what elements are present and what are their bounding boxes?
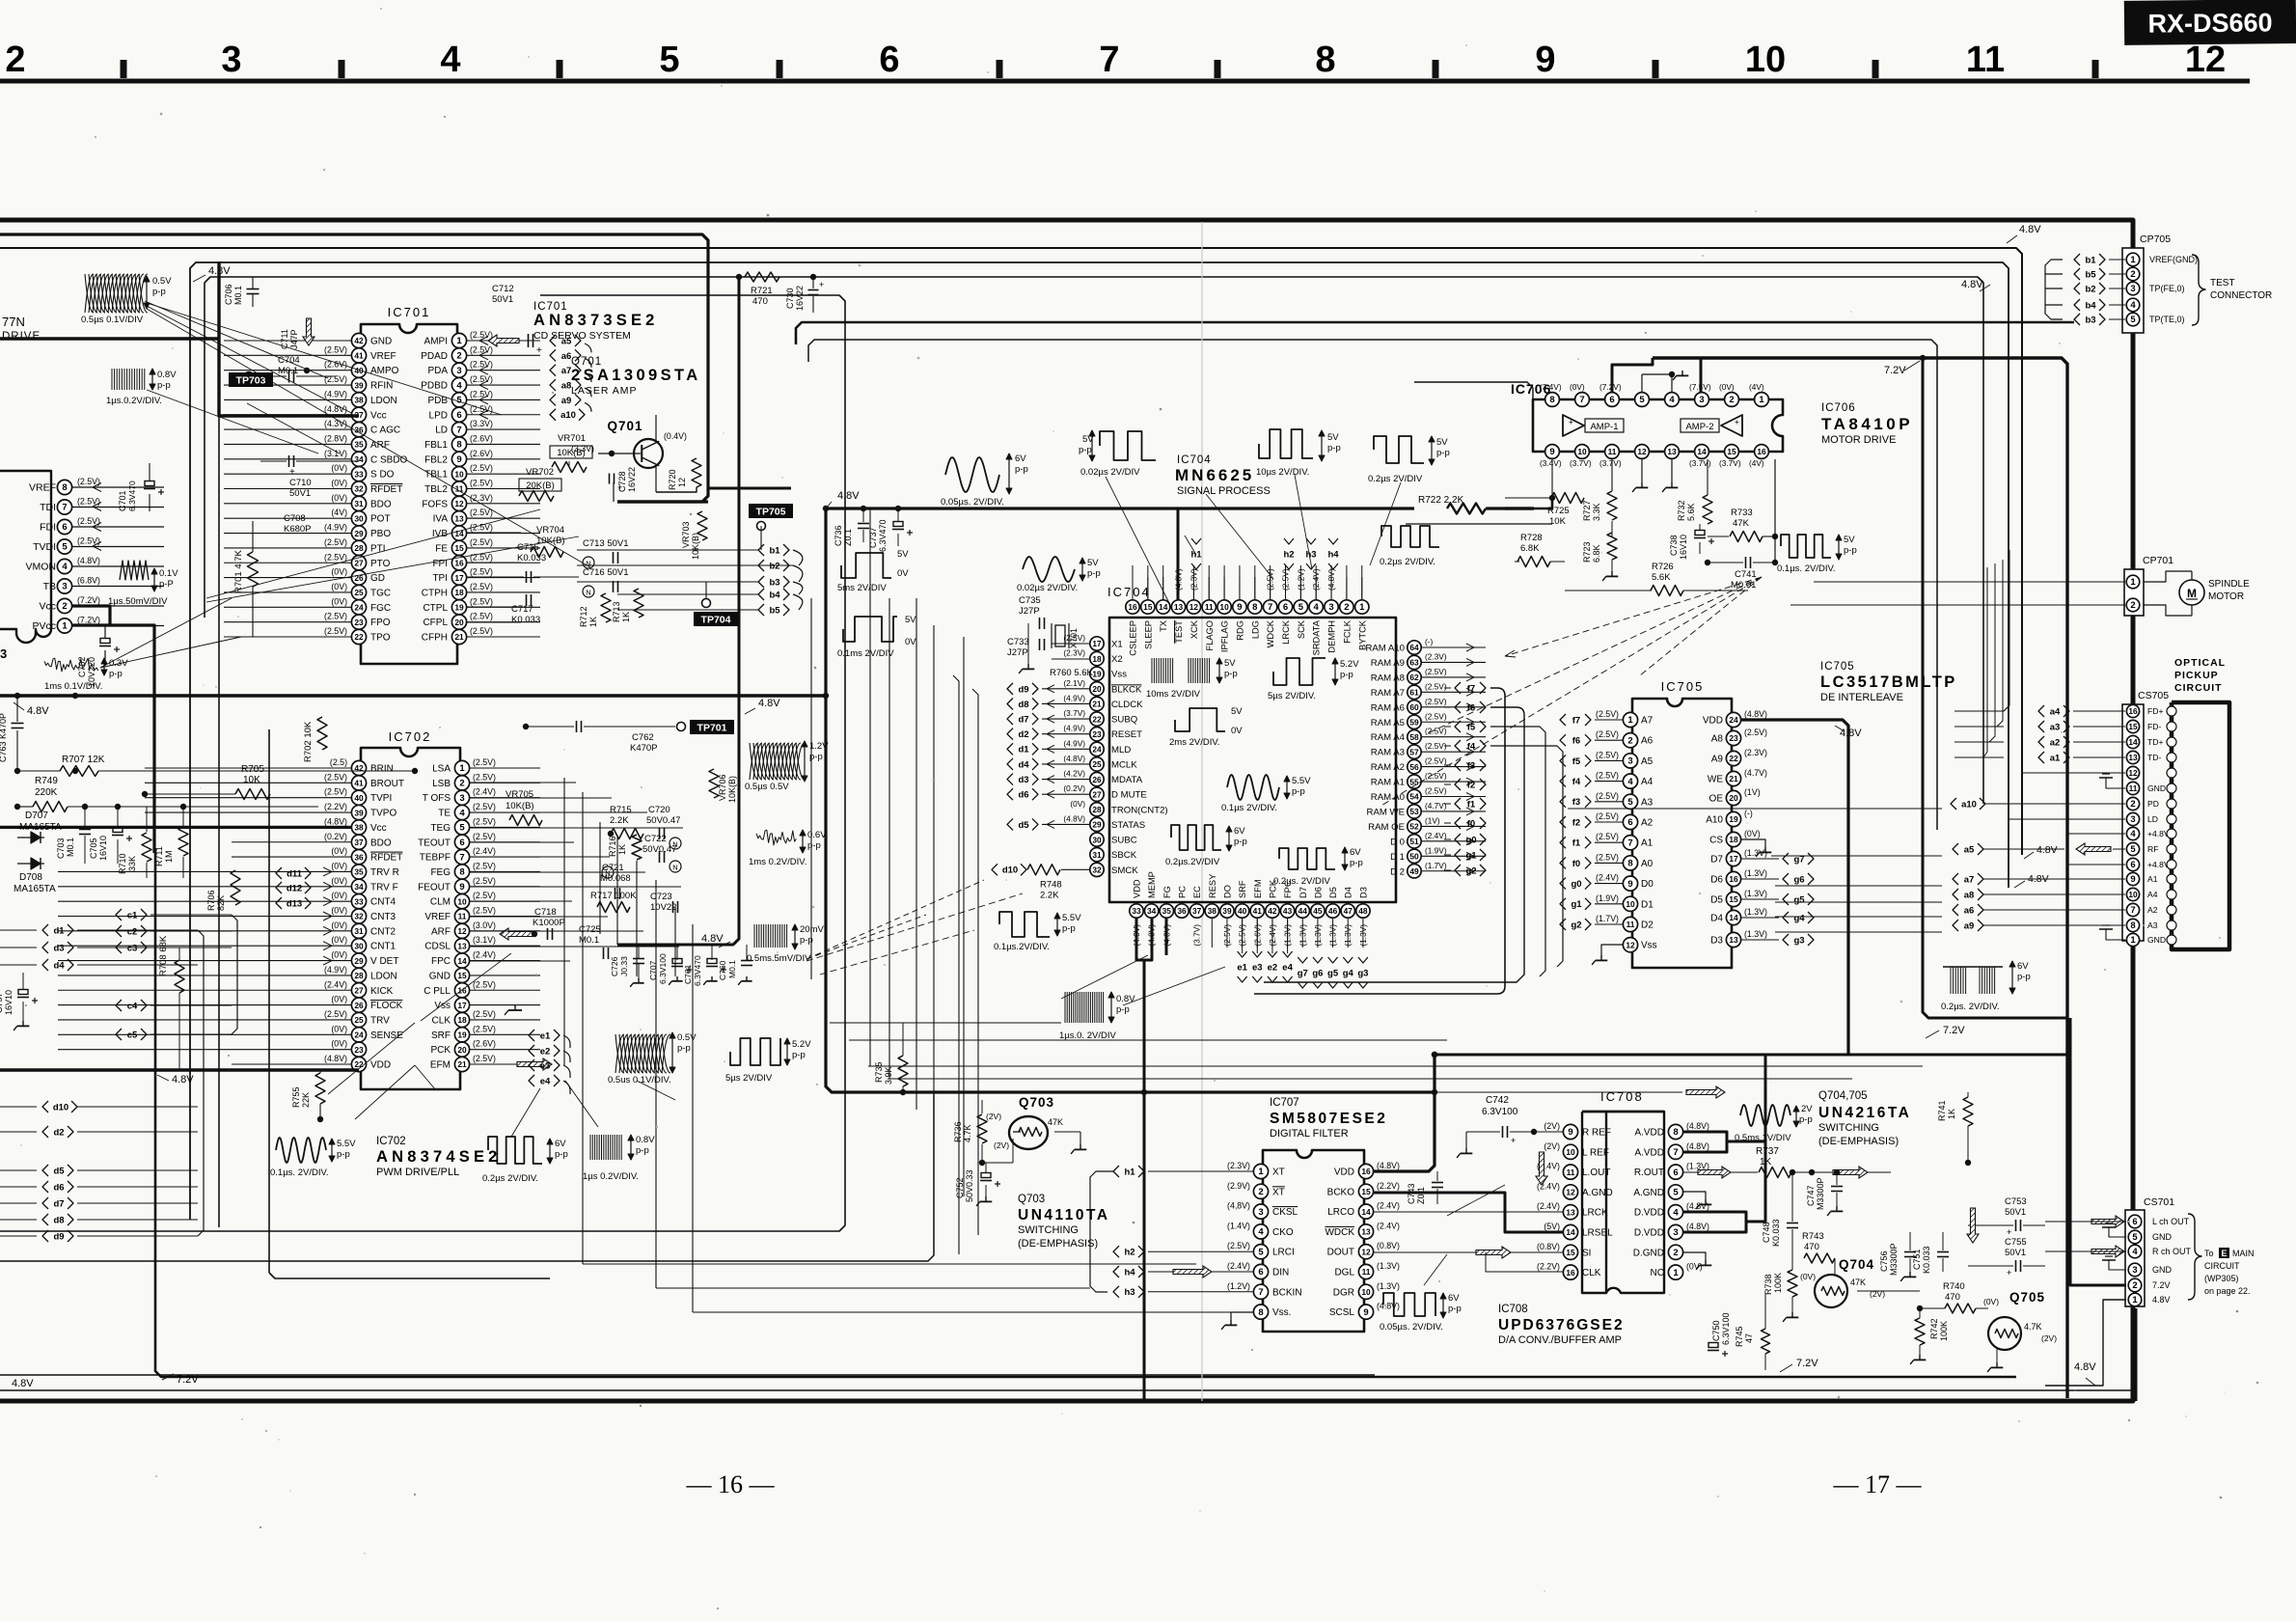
svg-text:p-p: p-p <box>1844 545 1857 556</box>
waveform square 2ms <box>1175 708 1225 731</box>
svg-text:BROUT: BROUT <box>370 779 404 789</box>
svg-text:(4.8V): (4.8V) <box>324 816 347 826</box>
svg-text:IPFLAG: IPFLAG <box>1220 620 1230 652</box>
svg-text:R708 68K: R708 68K <box>158 935 169 976</box>
waveform square 0.1ms <box>843 617 897 642</box>
svg-text:0.8V: 0.8V <box>636 1135 655 1145</box>
svg-text:0.1µs.2V/DIV.: 0.1µs.2V/DIV. <box>994 942 1050 952</box>
svg-text:5V: 5V <box>1224 658 1236 669</box>
wire h bundle <box>1090 1171 1113 1292</box>
pin 10 D1 of IC705 <box>1623 896 1637 911</box>
svg-text:38: 38 <box>354 396 364 405</box>
svg-text:c5: c5 <box>127 1030 138 1040</box>
svg-text:A6: A6 <box>1641 736 1654 747</box>
wire a4-a1 bundle up <box>2004 550 2009 711</box>
svg-text:7: 7 <box>456 425 461 435</box>
svg-text:38: 38 <box>354 823 364 833</box>
svg-text:29: 29 <box>1092 820 1102 830</box>
svg-text:52: 52 <box>1409 822 1419 832</box>
svg-text:(2.3V): (2.3V) <box>1227 1161 1250 1170</box>
pin 25 TRV of IC702 <box>351 1012 366 1027</box>
svg-text:8: 8 <box>1258 1307 1263 1318</box>
svg-text:1: 1 <box>62 621 68 632</box>
svg-text:VDD: VDD <box>370 1060 391 1071</box>
svg-text:(2.5V): (2.5V) <box>470 479 493 488</box>
svg-text:(2V): (2V) <box>986 1112 1001 1121</box>
pin 12 FOFS of IC701 <box>451 496 466 510</box>
pin 12 A.GND of IC708 <box>1563 1185 1577 1199</box>
svg-text:2: 2 <box>2130 269 2135 280</box>
svg-text:IC704: IC704 <box>1107 585 1151 599</box>
svg-text:SWITCHING: SWITCHING <box>1818 1122 1879 1134</box>
svg-text:39: 39 <box>1222 906 1232 916</box>
svg-text:(2.5V): (2.5V) <box>473 861 496 870</box>
svg-text:13: 13 <box>1566 1207 1575 1217</box>
pin 3 LD of CS705 <box>2126 812 2139 825</box>
svg-text:AMPI: AMPI <box>424 337 448 347</box>
svg-text:2: 2 <box>1344 602 1349 613</box>
svg-text:16V10: 16V10 <box>1679 535 1688 560</box>
wire X1 X2 stubs <box>1052 643 1089 645</box>
svg-text:VR702: VR702 <box>526 467 554 478</box>
pin 2 LSB of IC702 <box>454 776 469 790</box>
pin 16 FPI of IC701 <box>451 556 466 570</box>
svg-text:5.5V: 5.5V <box>1292 776 1311 786</box>
svg-text:b1: b1 <box>769 545 780 556</box>
svg-text:8: 8 <box>1627 859 1632 869</box>
pin 41 VREF of IC701 <box>351 348 366 363</box>
svg-text:TD+: TD+ <box>2147 737 2163 747</box>
svg-text:19: 19 <box>454 603 464 613</box>
svg-text:a9: a9 <box>561 396 572 406</box>
svg-text:0.2µs 2V/DIV.: 0.2µs 2V/DIV. <box>1380 557 1435 567</box>
svg-text:0.1µs. 2V/DIV.: 0.1µs. 2V/DIV. <box>1777 563 1836 574</box>
svg-text:(2.5V): (2.5V) <box>1596 811 1619 821</box>
waveform square 5ms <box>841 553 891 578</box>
svg-text:GND: GND <box>370 337 392 347</box>
pin 37 BDO of IC702 <box>351 835 366 849</box>
svg-text:33: 33 <box>354 469 364 479</box>
op-amp AMP-2 <box>1721 415 1742 436</box>
node c4 chevron <box>116 1000 122 1011</box>
svg-text:(0V): (0V) <box>331 596 347 606</box>
svg-text:CS705: CS705 <box>2138 690 2169 701</box>
svg-text:LD: LD <box>2147 814 2158 824</box>
svg-text:3: 3 <box>62 582 67 592</box>
svg-text:23: 23 <box>354 618 364 627</box>
svg-text:45: 45 <box>1313 906 1323 916</box>
svg-text:p-p: p-p <box>1799 1114 1813 1125</box>
svg-text:h2: h2 <box>1124 1248 1134 1258</box>
svg-text:1: 1 <box>1759 395 1764 405</box>
svg-text:(2.4V): (2.4V) <box>1537 1201 1560 1211</box>
svg-text:(2.3V): (2.3V) <box>1744 748 1767 757</box>
svg-text:15: 15 <box>2128 722 2138 731</box>
svg-text:17: 17 <box>454 573 464 583</box>
svg-text:C708: C708 <box>284 513 306 524</box>
pin 36 RFDET of IC702 <box>351 850 366 865</box>
svg-text:(7.2V): (7.2V) <box>77 616 100 625</box>
svg-text:(0V): (0V) <box>331 876 347 886</box>
op-amp AMP-1 <box>1563 415 1584 436</box>
svg-text:9: 9 <box>1549 447 1554 457</box>
svg-text:D7: D7 <box>1298 887 1308 898</box>
svg-text:34: 34 <box>354 882 364 892</box>
svg-text:(2.5): (2.5) <box>330 757 347 767</box>
svg-text:(4.9V): (4.9V) <box>1063 693 1085 702</box>
svg-text:SUBC: SUBC <box>1111 836 1137 846</box>
svg-text:36: 36 <box>354 852 364 862</box>
pin 16 FD+ of CS705 <box>2126 704 2139 717</box>
svg-text:50V0.47: 50V0.47 <box>646 815 680 826</box>
svg-text:(2.5V): (2.5V) <box>470 463 493 473</box>
svg-text:0.8V: 0.8V <box>1116 994 1135 1004</box>
svg-text:C735: C735 <box>1019 595 1041 606</box>
pin 14 FPC of IC702 <box>454 953 469 968</box>
svg-text:(1.3V): (1.3V) <box>1744 907 1767 917</box>
pin 4 PDBD of IC701 <box>451 377 466 392</box>
wire horizontal bundle below IC704 <box>826 508 1435 1092</box>
svg-text:47K: 47K <box>1048 1117 1063 1127</box>
pin 21 CFPH of IC701 <box>451 629 466 644</box>
svg-text:d5: d5 <box>53 1166 65 1176</box>
pin 41 BROUT of IC702 <box>351 776 366 790</box>
svg-text:p-p: p-p <box>636 1145 649 1156</box>
node a5 <box>550 335 556 346</box>
pin 53 RAM WE of IC704 right <box>1408 805 1421 818</box>
svg-text:+: + <box>1511 1136 1516 1145</box>
svg-text:PDAD: PDAD <box>421 351 448 362</box>
svg-text:4: 4 <box>2130 829 2136 839</box>
wire top rail 4 (R721 rail) <box>205 277 1983 804</box>
svg-text:VR701: VR701 <box>558 433 586 444</box>
svg-text:25: 25 <box>354 1015 364 1025</box>
svg-text:g0: g0 <box>1465 835 1476 845</box>
svg-text:IC702: IC702 <box>376 1136 406 1147</box>
svg-text:TD-: TD- <box>2147 753 2161 762</box>
svg-text:(1.3V): (1.3V) <box>1377 1281 1400 1291</box>
svg-text:Vcc: Vcc <box>39 601 56 613</box>
svg-text:R712: R712 <box>579 606 588 627</box>
node d9 d8 d7 d2 d1 d4 d3 d6 chevrons to IC704 <box>1007 683 1013 695</box>
node d10 d2 chevrons <box>42 1101 48 1113</box>
svg-text:R706: R706 <box>206 890 216 911</box>
svg-text:PDA: PDA <box>427 366 448 376</box>
svg-text:34: 34 <box>1147 906 1157 916</box>
svg-text:38: 38 <box>1208 906 1217 916</box>
page fold line <box>1201 222 1203 1401</box>
svg-text:(4.8V): (4.8V) <box>1686 1222 1709 1231</box>
svg-text:15: 15 <box>457 971 467 980</box>
pin 4 of IC706 top <box>1665 393 1680 407</box>
svg-text:R738: R738 <box>1763 1274 1773 1295</box>
svg-text:20: 20 <box>1729 793 1738 803</box>
wire thick 7.2V mid <box>1923 358 2067 1018</box>
pin 30 CNT1 of IC702 <box>351 939 366 953</box>
pin 23 nc of IC702 <box>351 1042 366 1057</box>
svg-text:6: 6 <box>2130 860 2135 870</box>
svg-text:CKO: CKO <box>1272 1227 1294 1238</box>
svg-text:WDCK: WDCK <box>1325 1227 1354 1238</box>
svg-text:4.8V: 4.8V <box>2019 224 2041 235</box>
pin 17 TPI of IC701 <box>451 570 466 585</box>
svg-text:2ms 2V/DIV.: 2ms 2V/DIV. <box>1169 737 1219 748</box>
svg-text:C741: C741 <box>1735 569 1757 580</box>
waveform saw 0.1V p-p <box>120 561 149 580</box>
svg-text:a6: a6 <box>561 351 572 362</box>
svg-text:(2.4V): (2.4V) <box>324 979 347 989</box>
wire pointer diagonal cluster IC701 <box>147 309 590 567</box>
connector CS701 <box>2125 1210 2145 1306</box>
pin 4 SRDATA of IC704 top <box>1309 600 1323 614</box>
svg-text:R710: R710 <box>118 853 127 874</box>
svg-text:2.2K: 2.2K <box>610 815 629 826</box>
pin 33 S DO of IC701 <box>351 467 366 481</box>
motor driver IC706 body <box>1533 399 1783 452</box>
svg-text:IC708: IC708 <box>1498 1304 1528 1315</box>
wire 4.8V rail to IC706 <box>826 507 1414 509</box>
waveform hatch 0.8V bottom mid <box>589 1135 591 1160</box>
svg-text:R705: R705 <box>241 764 264 775</box>
svg-text:(0V): (0V) <box>1719 382 1735 392</box>
svg-text:8: 8 <box>1549 395 1554 405</box>
svg-text:470: 470 <box>752 296 768 307</box>
pin 5 A3 of IC705 <box>1623 794 1637 809</box>
pin 38 RESY of IC704 bottom <box>1205 904 1218 918</box>
svg-text:+: + <box>536 345 542 356</box>
svg-text:(2.5V): (2.5V) <box>1425 711 1447 721</box>
svg-text:p-p: p-p <box>1292 786 1305 797</box>
svg-text:10: 10 <box>1566 1147 1575 1157</box>
svg-text:C710: C710 <box>289 478 312 488</box>
svg-text:(1.7V): (1.7V) <box>1596 914 1619 923</box>
svg-text:6.8K: 6.8K <box>1592 544 1601 563</box>
wire diagonal dashed to IC704 <box>806 893 1023 961</box>
pin 3 PDA of IC701 <box>451 363 466 377</box>
svg-text:PICKUP: PICKUP <box>2174 670 2219 681</box>
svg-text:14: 14 <box>1159 602 1168 612</box>
svg-text:(1.4V): (1.4V) <box>1227 1221 1250 1230</box>
svg-text:10µs 2V/DIV.: 10µs 2V/DIV. <box>1256 467 1309 478</box>
svg-text:Z0.1: Z0.1 <box>1416 1187 1426 1204</box>
svg-text:29: 29 <box>354 956 364 966</box>
connector CP705 test connector <box>2122 248 2144 333</box>
svg-text:RAM A5: RAM A5 <box>1371 718 1405 728</box>
svg-text:(0V): (0V) <box>331 920 347 930</box>
pin 2 of CP701 <box>2126 598 2140 612</box>
svg-text:C720: C720 <box>648 805 670 815</box>
svg-text:26: 26 <box>1092 775 1102 784</box>
svg-text:28: 28 <box>1092 805 1102 814</box>
svg-text:D2: D2 <box>1641 920 1654 931</box>
svg-text:10: 10 <box>1361 1287 1371 1297</box>
svg-text:(4.8V): (4.8V) <box>1377 1302 1400 1311</box>
svg-text:D 0: D 0 <box>1390 837 1405 847</box>
svg-text:g2: g2 <box>1571 920 1581 930</box>
pin 42 PCK of IC704 bottom <box>1266 904 1279 918</box>
svg-text:16V10: 16V10 <box>4 990 14 1015</box>
svg-text:1: 1 <box>2130 935 2136 946</box>
svg-text:a4: a4 <box>2050 706 2061 717</box>
svg-text:7.2V: 7.2V <box>1884 365 1906 376</box>
svg-text:8: 8 <box>1315 40 1335 80</box>
svg-text:RFDET: RFDET <box>370 853 402 864</box>
svg-text:12: 12 <box>457 926 467 936</box>
pin 20 CFPL of IC701 <box>451 615 466 629</box>
svg-text:R732: R732 <box>1677 500 1686 521</box>
svg-text:TEST: TEST <box>2210 278 2235 288</box>
svg-text:f1: f1 <box>1467 799 1476 810</box>
node e and g chevrons below IC704 <box>1242 919 1244 953</box>
node c1 c2 c3 chevrons <box>116 909 122 920</box>
pin 31 SBCK of IC704 left <box>1090 847 1104 861</box>
pin 35 ARF of IC701 <box>351 437 366 452</box>
svg-text:(0V): (0V) <box>331 567 347 577</box>
pin 13 of IC706 bottom <box>1665 445 1680 459</box>
svg-text:14: 14 <box>457 956 467 966</box>
svg-text:FCLK: FCLK <box>1342 619 1352 644</box>
pin 6 +4.8V of CS705 <box>2126 858 2139 870</box>
svg-text:(4.8V): (4.8V) <box>324 1054 347 1063</box>
svg-text:(1.2V): (1.2V) <box>1227 1281 1250 1291</box>
svg-text:FLAGO: FLAGO <box>1205 620 1215 651</box>
svg-text:Vss.: Vss. <box>1272 1307 1291 1318</box>
svg-text:TDI: TDI <box>40 502 56 513</box>
svg-text:7: 7 <box>1258 1287 1263 1298</box>
svg-text:a8: a8 <box>1964 890 1975 900</box>
svg-text:39: 39 <box>354 808 364 817</box>
svg-text:M3300P: M3300P <box>1889 1243 1899 1276</box>
svg-text:f4: f4 <box>1467 741 1476 752</box>
pin 7 TEBPF of IC702 <box>454 850 469 865</box>
pin 31 BDO of IC701 <box>351 496 366 510</box>
svg-text:DE INTERLEAVE: DE INTERLEAVE <box>1820 692 1903 703</box>
svg-text:7: 7 <box>1579 395 1584 405</box>
svg-text:39: 39 <box>354 380 364 390</box>
svg-text:6: 6 <box>1283 602 1288 613</box>
wire thick bottom joining <box>1848 1054 2070 1057</box>
svg-text:VREF: VREF <box>29 482 56 494</box>
svg-text:42: 42 <box>1268 906 1277 916</box>
svg-text:2: 2 <box>2132 1280 2137 1291</box>
svg-text:(1.9V): (1.9V) <box>1425 845 1447 855</box>
svg-text:0.2µs. 2V/DIV.: 0.2µs. 2V/DIV. <box>1941 1002 2000 1012</box>
pin 8 A.VDD of IC708 <box>1668 1124 1682 1139</box>
svg-text:60: 60 <box>1409 702 1419 712</box>
svg-text:C717: C717 <box>511 604 533 615</box>
svg-text:(3.4V): (3.4V) <box>1540 458 1562 468</box>
svg-text:CLK: CLK <box>1582 1268 1601 1278</box>
svg-text:50V1: 50V1 <box>2005 1248 2026 1258</box>
pin 17 X1 of IC704 left <box>1090 637 1104 650</box>
svg-text:A4: A4 <box>1641 777 1654 787</box>
pin 56 RAM A2 of IC704 right <box>1408 759 1421 773</box>
svg-text:h2: h2 <box>1283 550 1294 561</box>
pin 2 7.2V of CS701 <box>2128 1278 2142 1292</box>
pin 32 CNT3 of IC702 <box>351 909 366 923</box>
op-amp IC701 AN8373SE2 body <box>361 324 457 664</box>
pin 4 TE of IC702 <box>454 805 469 819</box>
svg-text:(2.5V): (2.5V) <box>473 891 496 900</box>
svg-text:0.2µs 2V/DIV: 0.2µs 2V/DIV <box>1368 474 1423 484</box>
svg-text:A.VDD: A.VDD <box>1634 1128 1664 1139</box>
svg-text:a8: a8 <box>561 380 572 391</box>
pin 3 T OFS of IC702 <box>454 790 469 805</box>
svg-text:5V: 5V <box>1844 535 1855 545</box>
svg-text:LD: LD <box>435 426 448 436</box>
svg-text:5V: 5V <box>1087 558 1099 568</box>
svg-text:(0V): (0V) <box>1070 799 1085 809</box>
svg-text:PD: PD <box>2147 799 2159 809</box>
wire top thick border rail <box>0 220 2133 1401</box>
svg-text:M0.1: M0.1 <box>233 286 243 305</box>
svg-text:(1.3V): (1.3V) <box>1744 889 1767 898</box>
svg-text:f5: f5 <box>1467 722 1476 732</box>
svg-text:TBL2: TBL2 <box>424 484 448 495</box>
svg-text:a9: a9 <box>1964 920 1975 931</box>
svg-text:RESY: RESY <box>1208 874 1217 898</box>
svg-text:p-p: p-p <box>555 1149 568 1160</box>
svg-text:CP705: CP705 <box>2140 234 2171 245</box>
pin 14 IVB of IC701 <box>451 526 466 540</box>
pin 19 SRF of IC702 <box>454 1028 469 1042</box>
svg-text:(0V): (0V) <box>331 995 347 1004</box>
wire pointer diagonals mid <box>355 1065 415 1119</box>
svg-text:5V: 5V <box>1327 432 1339 443</box>
svg-text:SRDATA: SRDATA <box>1312 619 1322 655</box>
pin 6 LRCK of IC704 top <box>1278 600 1292 614</box>
svg-text:16: 16 <box>1757 447 1766 456</box>
pin 14 of IC706 bottom <box>1695 445 1709 459</box>
svg-text:A8: A8 <box>1711 734 1724 745</box>
svg-text:A4: A4 <box>2147 890 2158 899</box>
svg-text:RAM A3: RAM A3 <box>1371 748 1405 758</box>
svg-text:J0.33: J0.33 <box>619 956 629 976</box>
svg-text:RESET: RESET <box>1111 729 1142 740</box>
pin 24 SENSE of IC702 <box>351 1028 366 1042</box>
svg-text:3: 3 <box>1627 756 1632 767</box>
pin 23 A8 of IC705 <box>1726 730 1740 745</box>
svg-text:FPC: FPC <box>431 956 451 967</box>
svg-text:0.5us 0.1V/DIV.: 0.5us 0.1V/DIV. <box>608 1075 671 1085</box>
wire pointer lines Q703 waveform <box>1447 1185 1505 1216</box>
pin 24 FGC of IC701 <box>351 600 366 615</box>
svg-text:D.VDD: D.VDD <box>1634 1208 1664 1219</box>
svg-text:(0.2V): (0.2V) <box>324 832 347 841</box>
svg-text:4.8V: 4.8V <box>2152 1295 2171 1305</box>
svg-text:R735: R735 <box>874 1061 884 1083</box>
node c5 chevron <box>116 1029 122 1040</box>
svg-text:9: 9 <box>1237 602 1242 613</box>
svg-text:MOTOR: MOTOR <box>2208 591 2244 602</box>
svg-text:(4V): (4V) <box>331 508 347 517</box>
pin 42 GND of IC701 <box>351 333 366 347</box>
svg-text:0.1µs 2V/DIV.: 0.1µs 2V/DIV. <box>1221 803 1277 813</box>
svg-text:R745: R745 <box>1735 1326 1744 1347</box>
svg-text:6: 6 <box>62 522 67 533</box>
svg-text:a10: a10 <box>1961 799 1977 810</box>
pin 10 TBL1 of IC701 <box>451 467 466 481</box>
svg-text:K0.033: K0.033 <box>1922 1246 1931 1274</box>
capacitor C702 <box>100 639 110 644</box>
node h1 h2 h4 h3 chevrons IC707 <box>1113 1166 1119 1177</box>
svg-text:D6: D6 <box>1313 887 1323 898</box>
pin 13 WDCK of IC707 <box>1358 1224 1373 1239</box>
svg-text:p-p: p-p <box>1224 669 1238 679</box>
svg-text:A3: A3 <box>2147 920 2158 930</box>
svg-text:19: 19 <box>1729 814 1738 824</box>
pin 45 D6 of IC704 bottom <box>1311 904 1325 918</box>
